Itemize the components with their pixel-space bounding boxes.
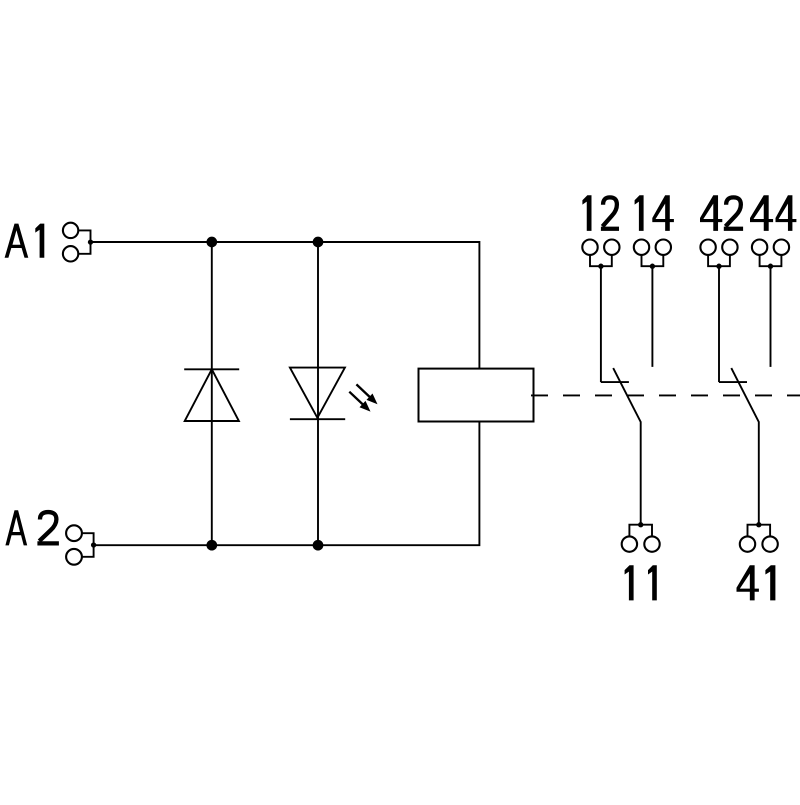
label 11: [625, 565, 634, 600]
wire 44: [770, 266, 772, 367]
wire A1 rail: [91, 242, 480, 369]
label 44: [750, 195, 773, 231]
terminal 11: [622, 536, 637, 551]
actuation dashed link: [531, 394, 800, 396]
contact arm 41: [731, 368, 759, 525]
wire diode branch: [211, 242, 213, 545]
label 42: [700, 195, 722, 231]
wire 14: [651, 266, 653, 367]
contact arm 11: [613, 368, 641, 525]
label 12: [582, 195, 591, 231]
diode V1: [184, 369, 239, 421]
NC contact bar 42: [719, 381, 747, 383]
NC contact bar 12: [601, 381, 629, 383]
terminal 14: [634, 240, 649, 255]
terminal 42: [700, 240, 715, 255]
terminal A2: [66, 525, 82, 541]
node LED top: [313, 237, 324, 248]
wire 12: [600, 266, 602, 382]
LED H1: [290, 368, 345, 420]
label A2: [5, 510, 27, 545]
node diode bottom: [206, 540, 217, 551]
wire coil bottom / A2 rail: [94, 422, 480, 546]
terminal 41: [740, 536, 755, 551]
LED arrow 2: [349, 392, 364, 406]
node LED bottom: [313, 540, 324, 551]
LED arrow 1: [356, 384, 371, 398]
terminal 12: [582, 240, 597, 255]
relay coil K1: [419, 369, 534, 422]
wire LED branch: [317, 242, 319, 545]
label 14: [635, 195, 644, 231]
terminal 44: [752, 240, 767, 255]
label 41: [737, 565, 759, 600]
terminal A1: [63, 223, 78, 238]
label A1: [5, 224, 29, 258]
node diode top: [206, 237, 217, 248]
wire 42: [718, 266, 720, 382]
